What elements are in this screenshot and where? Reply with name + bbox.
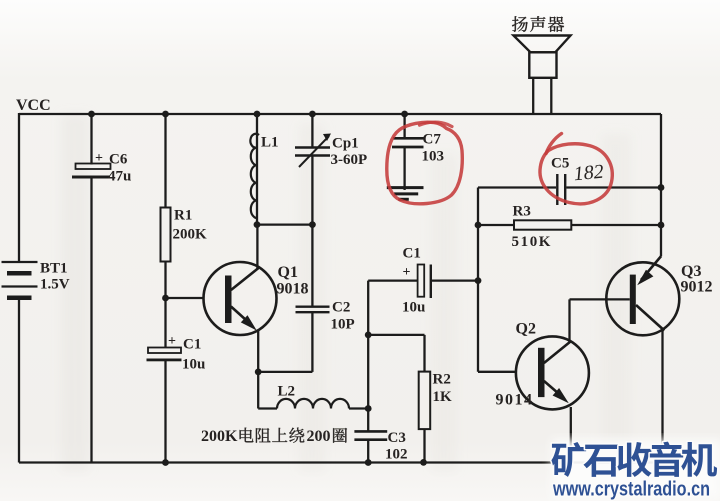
svg-text:R1: R1 <box>174 208 192 224</box>
node R1/C1 junction <box>162 295 169 302</box>
svg-text:Q1: Q1 <box>278 264 298 281</box>
svg-text:VCC: VCC <box>16 97 51 114</box>
svg-text:200K: 200K <box>173 227 208 243</box>
svg-text:103: 103 <box>422 149 445 165</box>
svg-text:C5: C5 <box>551 156 569 172</box>
wire Q1 emitter down <box>257 330 259 372</box>
svg-text:510K: 510K <box>512 234 553 250</box>
svg-text:182: 182 <box>573 161 605 186</box>
svg-text:+: + <box>403 265 411 280</box>
svg-text:1K: 1K <box>433 389 453 405</box>
wire C7 branch <box>401 111 408 118</box>
speaker (horn symbol) <box>514 36 571 53</box>
node R3 right junction <box>658 222 665 229</box>
svg-text:3-60P: 3-60P <box>331 152 368 168</box>
wire center branch vertical <box>367 281 369 432</box>
capacitor C7 103 <box>393 137 424 140</box>
wire C6 branch <box>88 111 95 118</box>
resistor R1 200K <box>161 208 171 262</box>
wire R1 branch <box>162 111 169 118</box>
transistor Q3 9012 (PNP) <box>606 262 679 335</box>
wire Cp1 branch <box>309 111 316 118</box>
svg-text:Cp1: Cp1 <box>332 136 359 152</box>
svg-text:47u: 47u <box>108 169 131 185</box>
wire Q2 collector to Q3 base <box>570 298 630 300</box>
wire Q2 base <box>478 371 517 373</box>
svg-text:R3: R3 <box>513 204 531 220</box>
svg-text:10P: 10P <box>331 317 355 333</box>
wire C5 feedback <box>478 186 556 188</box>
wire L1 branch <box>254 111 261 118</box>
transistor Q1 9018 (NPN) <box>204 262 277 335</box>
wire right rail to Q3 <box>660 114 662 256</box>
svg-text:C3: C3 <box>388 430 406 446</box>
svg-text:Q2: Q2 <box>516 321 536 338</box>
svg-text:10u: 10u <box>402 300 425 316</box>
wire R3 row <box>478 224 514 226</box>
svg-text:C6: C6 <box>109 152 128 168</box>
node L1/Cp1 junction <box>254 221 261 228</box>
capacitor C2 10P <box>296 306 330 308</box>
svg-text:C2: C2 <box>332 300 350 316</box>
wire Q1 emitter to L2 <box>257 372 259 409</box>
inductor L2 <box>277 399 349 409</box>
svg-text:L2: L2 <box>278 384 296 400</box>
svg-text:9012: 9012 <box>681 279 713 296</box>
variable capacitor Cp1 3-60P <box>295 146 330 148</box>
wire bottom ground rail <box>19 461 663 463</box>
watermark white backing <box>552 439 720 499</box>
wire L1 to Cp1 <box>257 223 312 225</box>
svg-text:C1: C1 <box>403 246 421 262</box>
node C4 left corner <box>368 279 417 281</box>
annotation red circle around C5 <box>540 144 612 204</box>
capacitor C1 10u (coupling, middle) <box>418 265 425 297</box>
watermark logo (Chinese) <box>551 442 586 477</box>
svg-text:Q3: Q3 <box>681 263 701 280</box>
svg-text:10u: 10u <box>182 357 205 373</box>
wire L2 to C3 node <box>349 407 368 409</box>
node Q1 emitter junction <box>255 369 262 376</box>
wire Q1 collector to L1 node <box>256 225 258 269</box>
svg-text:1.5V: 1.5V <box>40 277 70 293</box>
capacitor C3 102 <box>354 430 387 433</box>
svg-text:+: + <box>95 151 103 166</box>
wire emitter to C2 branch <box>258 371 312 373</box>
wire Q2 emitter down <box>570 407 572 463</box>
svg-text:102: 102 <box>385 447 408 463</box>
wire feedback branch vertical <box>477 188 479 372</box>
node R2 tap junction <box>365 332 372 339</box>
transistor Q2 9014 (NPN) <box>516 336 589 409</box>
node C5 right junction <box>658 184 665 191</box>
capacitor C5 182 <box>556 174 558 205</box>
svg-text:+: + <box>168 334 176 349</box>
svg-text:BT1: BT1 <box>40 261 68 277</box>
wire Q1 base <box>166 297 205 299</box>
svg-text:C7: C7 <box>423 132 442 148</box>
svg-text:9018: 9018 <box>277 281 309 298</box>
wire Q2 collector up <box>568 299 570 341</box>
node C1/R3 junction <box>475 277 482 284</box>
svg-text:R2: R2 <box>433 372 451 388</box>
inductor L1 <box>250 134 259 218</box>
capacitor C6 47u (electrolytic) <box>76 164 111 170</box>
label speaker (Chinese) <box>512 16 528 32</box>
svg-text:www.crystalradio.cn: www.crystalradio.cn <box>552 479 710 501</box>
battery BT1 <box>2 261 38 263</box>
ground symbol <box>387 186 424 189</box>
resistor R2 1K <box>419 372 431 430</box>
node L2/C3 junction <box>365 405 372 412</box>
wire speaker leads <box>532 78 534 114</box>
svg-text:C1: C1 <box>183 337 201 353</box>
wire left rail (battery branch) <box>18 113 20 261</box>
svg-text:L1: L1 <box>261 135 279 151</box>
node R3 left junction <box>475 222 482 229</box>
svg-text:200K: 200K <box>201 428 238 445</box>
wire VCC top rail <box>19 113 661 115</box>
node C3 bottom junction <box>365 459 372 466</box>
capacitor C1 10u (electrolytic) <box>148 348 181 354</box>
resistor R3 510K <box>514 220 571 229</box>
wire R2 tap <box>368 334 424 336</box>
svg-text:200: 200 <box>307 428 331 445</box>
svg-text:9014: 9014 <box>496 392 534 409</box>
wire Q3 collector down <box>661 331 663 463</box>
annotation red circle around C7 <box>387 122 463 204</box>
